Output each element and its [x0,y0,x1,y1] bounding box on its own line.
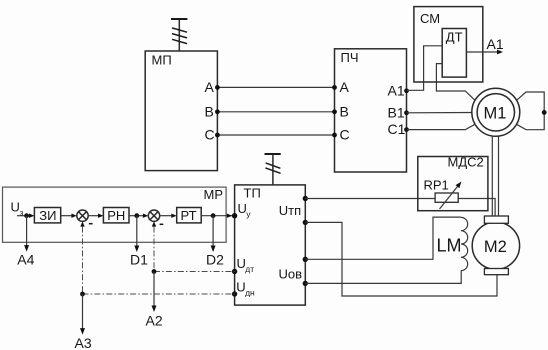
block СМ [414,7,483,82]
summer 1 [77,210,93,227]
inductor LM (excitation winding) [437,217,468,270]
arrow А4 [17,216,34,268]
svg-text:ЗИ: ЗИ [39,208,56,223]
svg-text:А3: А3 [75,335,92,350]
block ЗИ (ramp generator) [34,208,60,224]
block МП (frequency converter supply unit) [145,51,217,171]
block ПЧ [335,49,407,172]
pin В1 of ПЧ [388,104,409,120]
wire Uтп through RP1 to М2 top brush [305,199,495,217]
block МДС2 [418,155,488,211]
svg-text:А: А [340,79,350,95]
arrow А2 [146,272,163,329]
pin Uтп of ТП [279,196,308,225]
wire Uов to LM bottom [305,271,461,284]
svg-text:D1: D1 [130,252,148,268]
variable resistor RP1 [424,177,462,209]
svg-text:МП: МП [152,52,172,67]
svg-text:U: U [11,200,20,215]
pin Uу of ТП [232,201,251,219]
block ДТ (current sensor) [442,29,466,78]
svg-text:LM: LM [437,236,462,256]
svg-text:ДТ: ДТ [446,30,463,45]
block МР (microprocessor regulator) [3,187,227,242]
svg-text:RP1: RP1 [424,177,449,192]
svg-text:РТ: РТ [181,208,197,223]
block ТП (thyristor converter) [235,185,306,305]
summer 2 [148,210,163,227]
svg-text:А2: А2 [146,312,163,328]
svg-text:МР: МР [204,187,224,202]
svg-text:СМ: СМ [420,11,440,26]
svg-text:А4: А4 [17,252,34,268]
arrow D2 [206,216,224,268]
svg-text:у: у [246,209,251,219]
svg-text:М1: М1 [484,105,507,123]
wire phase A (МП-ПЧ) [205,79,350,95]
wire summer1 to РН [88,214,103,218]
svg-text:В: В [340,103,349,119]
wire Uтп return to М2 bottom brush [305,222,497,296]
shaft М1-М2 (double line) [492,136,498,216]
svg-text:С: С [340,127,350,143]
svg-text:М2: М2 [484,238,507,256]
rotor short-circuit fan of М1 [517,92,547,130]
svg-text:Uов: Uов [279,267,303,282]
svg-text:А1: А1 [487,36,504,52]
arrow output А1 from ДТ [466,36,503,55]
block РТ (current regulator) [177,208,202,224]
wire from ДТ down to motor М1 [436,64,475,101]
wire summer2 to РТ [160,214,177,218]
wire phase B (МП-ПЧ) [205,103,349,119]
arrow А3 [75,294,92,350]
svg-text:МДС2: МДС2 [448,155,484,170]
svg-text:D2: D2 [206,252,224,268]
svg-text:Uтп: Uтп [279,203,301,218]
wire А1 up into current sensor ДТ [407,46,443,91]
svg-text:В1: В1 [388,104,405,120]
svg-text:ТП: ТП [244,185,261,200]
three-phase mains symbol above МП [171,19,187,51]
dashed feedback to summer1 (Uдн) [80,227,235,297]
block РН (voltage regulator) [103,208,129,224]
svg-text:дт: дт [245,264,254,274]
pin С1 of ПЧ [388,121,409,137]
motor М1 [472,88,520,136]
pin Uдт of ТП [232,256,254,274]
motor М2 [472,216,519,275]
dashed feedback to summer2 (Uдт) [152,227,235,274]
node D2 junction and wire to ТП [201,213,234,218]
node D1 junction [129,213,148,218]
arrow D1 [130,216,148,268]
mains symbol above ТП [265,154,281,185]
wire С1 to М1 [407,124,476,129]
svg-text:С: С [205,127,215,143]
wire phase C (МП-ПЧ) [205,127,350,143]
wire В1 to М1 [407,112,473,114]
input Uз [11,200,35,219]
svg-text:С1: С1 [388,121,406,137]
wire Uов to LM top [305,217,461,259]
wire ЗИ to summer 1 [61,214,77,218]
pin Uдн of ТП [232,280,255,298]
pin А1 of ПЧ [388,82,409,98]
pin Uов of ТП [279,257,308,287]
svg-text:дн: дн [245,288,255,298]
svg-text:РН: РН [107,208,125,223]
svg-text:А1: А1 [388,82,405,98]
svg-text:ПЧ: ПЧ [341,50,359,65]
svg-text:А: А [205,79,215,95]
svg-text:В: В [205,103,214,119]
